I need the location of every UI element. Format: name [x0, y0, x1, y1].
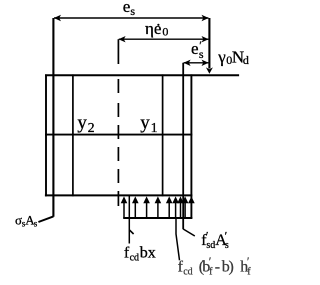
- svg-text:s: s: [34, 218, 38, 228]
- section bottom edge: [45, 194, 193, 196]
- svg-text:0: 0: [162, 25, 168, 39]
- svg-text:1: 1: [151, 121, 158, 136]
- compression steel A's centroid line: [182, 63, 184, 230]
- svg-text:bx: bx: [140, 244, 156, 261]
- section left edge: [45, 74, 47, 196]
- label gamma0 Nd: [217, 47, 249, 67]
- label f'_sd A'_s with pointer: [183, 228, 229, 251]
- svg-text:cd: cd: [183, 266, 192, 277]
- label y1: [140, 112, 157, 136]
- dimension e_s: [54, 0, 209, 21]
- svg-text:e: e: [191, 39, 199, 58]
- tension steel As centroid line: [52, 18, 54, 217]
- web line right: [162, 74, 164, 196]
- svg-text:e: e: [123, 0, 131, 16]
- svg-text:s: s: [130, 4, 135, 18]
- label f_cd (b'_f - b) h'_f with pointer: [176, 218, 251, 278]
- stress block baseline: [123, 217, 192, 219]
- svg-text:y: y: [140, 112, 150, 133]
- svg-text:2: 2: [88, 121, 95, 136]
- svg-text:d: d: [243, 53, 249, 67]
- svg-text:): ): [229, 258, 234, 275]
- svg-text:ηe: ηe: [145, 19, 161, 38]
- section right edge and stress-block right side: [190, 74, 192, 218]
- svg-text:-: -: [215, 258, 220, 275]
- label f_cd bx with pointer: [124, 196, 156, 264]
- svg-text:γ: γ: [217, 47, 226, 66]
- label y2: [77, 113, 94, 137]
- dimension eta e_0: [118, 19, 208, 43]
- svg-text:sd: sd: [206, 240, 215, 251]
- mid horizontal axis line: [45, 134, 192, 136]
- svg-text:cd: cd: [130, 252, 139, 263]
- concrete stress arrows comb: [121, 196, 195, 218]
- svg-text:s: s: [225, 240, 229, 251]
- section top surface line: [45, 74, 239, 76]
- centroid dashed axis: [117, 39, 119, 206]
- svg-text:s: s: [199, 47, 204, 61]
- web line left: [72, 74, 74, 196]
- svg-text:y: y: [77, 113, 87, 134]
- dimension e'_s: [183, 38, 208, 66]
- label sigma_s A_s with pointer: [15, 212, 53, 228]
- force gamma0 Nd arrow: [206, 18, 213, 74]
